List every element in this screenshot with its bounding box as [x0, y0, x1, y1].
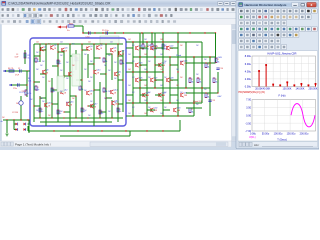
resistor R6 — [120, 60, 122, 64]
svg-text:2k2: 2k2 — [148, 92, 151, 94]
top rail wire — [83, 32, 216, 34]
wire vertical bus x64 — [63, 50, 65, 78]
svg-text:4k: 4k — [216, 81, 218, 83]
svg-text:C:\ACL2\DATA\Petrov\Head\MP-K2: C:\ACL2\DATA\Petrov\Head\MP-K201\U02_Hed… — [8, 2, 111, 6]
toolbar3 icon 5 — [26, 20, 29, 23]
svg-text:1k2: 1k2 — [144, 100, 147, 102]
svg-text:2k2: 2k2 — [66, 78, 69, 80]
svg-text:2k2: 2k2 — [72, 98, 75, 100]
toolbar3 icon 6 — [31, 20, 35, 24]
svg-text:Q33: Q33 — [177, 108, 180, 110]
capacitor C9 — [17, 83, 19, 86]
analysis title bar — [237, 2, 318, 8]
junction inner (106,74) — [105, 73, 106, 74]
junction input 1 — [26, 70, 27, 71]
right horizontal rail 5 — [126, 102, 202, 104]
toolbar1 icon 6 — [28, 8, 31, 11]
analysis caption buttons — [292, 2, 299, 7]
analysis tb7 button 7 — [275, 44, 280, 49]
junction inner (76,96) — [75, 95, 76, 96]
svg-text:2k2: 2k2 — [164, 61, 167, 63]
wire vertical out x140 — [139, 33, 141, 103]
toolbar row 1 — [0, 7, 319, 13]
toolbar2 icon 21 — [110, 14, 112, 17]
svg-text:2k2: 2k2 — [2, 117, 5, 119]
svg-text:2k2: 2k2 — [60, 91, 63, 93]
junction extra d4 — [139, 64, 140, 65]
wire jog j1 — [40, 49, 46, 51]
toolbar1 icon 24 — [122, 8, 124, 11]
toolbar2 icon 16 — [83, 14, 86, 17]
wire segment s17 — [155, 94, 163, 96]
junction out (133,72) — [132, 71, 133, 72]
junction out (147,72) — [146, 71, 147, 72]
svg-text:Q1: Q1 — [44, 47, 46, 49]
analysis tab nav 1 — [239, 142, 242, 146]
analysis tb6 button 2 — [245, 38, 250, 43]
wire jog j16 — [118, 79, 123, 81]
resistor R1B — [151, 33, 153, 44]
toolbar3 icon 1 — [2, 20, 4, 23]
svg-text:1k2: 1k2 — [36, 42, 39, 44]
toolbar3 icon 13 — [73, 20, 76, 23]
junction bottom rail x126 — [125, 130, 126, 131]
svg-text:2N: 2N — [65, 50, 67, 52]
wire vertical bus x118 — [117, 44, 119, 122]
analysis tb2 button 2 — [245, 14, 250, 19]
transistor Q5 — [97, 45, 100, 49]
wire vertical bus x76 — [75, 50, 77, 70]
svg-text:2k2: 2k2 — [36, 110, 39, 112]
analysis close button — [307, 2, 316, 7]
analysis tb1 button 12 — [306, 8, 311, 13]
transistor Q16 — [67, 102, 70, 106]
transistor Q29 — [143, 93, 146, 97]
wire vertical bus x112 — [111, 54, 113, 80]
svg-text:1k2: 1k2 — [144, 113, 147, 115]
resistor R30 — [205, 63, 207, 68]
toolbar1 icon 7 — [33, 8, 35, 11]
toolbar1 icon 26 — [132, 8, 135, 11]
transistor Q32 — [151, 108, 154, 112]
analysis tb4 button 12 — [306, 26, 311, 31]
wire jog j12 — [64, 75, 70, 77]
toolbar1 icon 23 — [117, 8, 120, 11]
svg-text:2N: 2N — [100, 48, 102, 50]
region highlight mid column — [72, 54, 80, 86]
resistor R6 — [9, 70, 14, 72]
svg-text:2k2: 2k2 — [104, 98, 107, 100]
svg-text:2k2: 2k2 — [204, 59, 207, 61]
svg-text:2k2: 2k2 — [180, 45, 183, 47]
analysis tb5 button 8 — [281, 32, 286, 37]
toolbar1 icon 5 — [22, 8, 25, 11]
junction inner (58,52) — [57, 51, 58, 52]
analysis tb1 button 11 — [300, 8, 305, 13]
junction out (194,103) — [193, 102, 194, 103]
wire segment s9 — [170, 47, 178, 49]
svg-text:1k2: 1k2 — [160, 113, 163, 115]
toolbar1 icon 15 — [75, 8, 78, 11]
analysis tb4 button 3 — [251, 26, 256, 31]
svg-text:2k2: 2k2 — [180, 77, 183, 79]
svg-text:Q26: Q26 — [139, 78, 142, 80]
analysis tb3 button 2 — [245, 20, 250, 25]
caption buttons main window — [218, 2, 224, 6]
svg-text:2k2: 2k2 — [66, 62, 69, 64]
main title bar — [0, 0, 319, 7]
svg-text:1k2: 1k2 — [128, 39, 131, 41]
region highlight small — [57, 76, 64, 92]
toolbar3 icon 10 — [56, 20, 58, 23]
wire segment s27 — [217, 88, 219, 93]
toolbar2 icon 9 — [45, 14, 48, 17]
svg-text:2k2: 2k2 — [204, 89, 207, 91]
harmonic stem 9 — [315, 84, 317, 87]
svg-text:1k2: 1k2 — [176, 69, 179, 71]
analysis tb1 button 5 — [263, 8, 268, 13]
junction out (170,103) — [169, 102, 170, 103]
toolbar3 icon 4 — [19, 20, 22, 23]
analysis tb2 button 9 — [287, 14, 292, 19]
capacitor C2in — [19, 69, 21, 72]
analysis tb7 button 6 — [269, 44, 274, 49]
svg-text:2k2: 2k2 — [36, 52, 39, 54]
analysis tb1 button 3 — [251, 8, 256, 13]
svg-text:2k2: 2k2 — [132, 92, 135, 94]
resistor R12 — [57, 110, 59, 114]
wire vertical bus x52 — [51, 78, 53, 118]
svg-text:V(RL): V(RL) — [249, 136, 256, 139]
analysis tb7 button 3 — [251, 44, 256, 49]
junction node top rail A — [82, 32, 83, 33]
svg-text:150.00u: 150.00u — [287, 132, 296, 135]
svg-text:4k: 4k — [208, 96, 210, 98]
resistor R9 — [79, 86, 81, 90]
analysis tb1 button 2 — [245, 8, 250, 13]
resistor R33 — [205, 93, 207, 98]
analysis tb7 button 1 — [239, 44, 244, 49]
toolbar1 icon 40 — [206, 8, 209, 11]
analysis tb1 button 13 — [312, 8, 317, 13]
schematic tab bar — [0, 141, 232, 147]
svg-text:Q22: Q22 — [170, 46, 173, 48]
svg-text:2k2: 2k2 — [180, 61, 183, 63]
svg-text:2k2: 2k2 — [108, 70, 111, 72]
wire vertical out x178 — [177, 33, 179, 116]
analysis tb4 button 11 — [300, 26, 305, 31]
svg-text:2k2: 2k2 — [40, 98, 43, 100]
svg-text:2N: 2N — [90, 93, 92, 95]
diode D1 — [16, 123, 18, 126]
junction extra d11 — [162, 94, 163, 95]
svg-text:x: x — [311, 3, 313, 7]
wire jog j8 — [118, 55, 123, 57]
harmonic stem 3 — [272, 85, 274, 87]
toolbar3 icon 27 — [156, 20, 159, 23]
svg-text:1k: 1k — [101, 113, 103, 115]
junction out (178,116) — [177, 115, 178, 116]
wire vertical bus x70 — [69, 44, 71, 122]
wire vertical out x163 — [162, 42, 164, 116]
svg-text:Q27: Q27 — [154, 78, 157, 80]
svg-text:0.7k: 0.7k — [28, 93, 32, 95]
junction out (140,57) — [139, 56, 140, 57]
toolbar1 icon 42 — [216, 8, 219, 11]
junction inner (58,66) — [57, 65, 58, 66]
toolbar3 icon 14 — [79, 20, 82, 23]
analysis tb4 button 13 — [312, 26, 317, 31]
toolbar2 icon 31 — [165, 14, 167, 17]
junction inner (94,64) — [93, 63, 94, 64]
junction inner (40,50) — [39, 49, 40, 50]
junction input 2 — [26, 84, 27, 85]
svg-text:2N3: 2N3 — [177, 110, 180, 112]
junction inner (118,104) — [117, 103, 118, 104]
junction inner (123,80) — [122, 79, 123, 80]
svg-text:2k2: 2k2 — [60, 111, 63, 113]
svg-text:7.00: 7.00 — [246, 99, 251, 102]
analysis tb2 button 5 — [263, 14, 268, 19]
wire vertical bus x40 — [39, 44, 41, 62]
schematic canvas background — [0, 25, 232, 142]
junction inner (94,90) — [93, 89, 94, 90]
toolbar2 icon 14 — [72, 14, 75, 17]
svg-text:+56V: +56V — [217, 57, 223, 59]
toolbar3 icon 25 — [144, 20, 147, 23]
junction bottom rail x54 — [53, 130, 54, 131]
toolbar1 icon 38 — [195, 8, 198, 11]
app icon — [2, 1, 7, 6]
svg-text:2N3: 2N3 — [146, 95, 149, 97]
input stub 2 arrow — [9, 84, 12, 86]
svg-text:2N3: 2N3 — [154, 48, 157, 50]
svg-text:2k2: 2k2 — [36, 90, 39, 92]
analysis tb5 button 7 — [275, 32, 280, 37]
analysis tb7 button 2 — [245, 44, 250, 49]
toolbar1 icon 10 — [48, 8, 51, 11]
svg-text:0.00: 0.00 — [246, 114, 251, 117]
analysis tb2 button 3 — [251, 14, 256, 19]
wire segment s3 — [93, 122, 95, 126]
analysis tb7 button 4 — [257, 44, 262, 49]
harmonic stem 8 — [307, 85, 309, 86]
resistor R3 — [57, 60, 59, 64]
analysis tb2 button 7 — [275, 14, 280, 19]
resistor-cap pair R2/C3 — [24, 50, 26, 64]
bottom plot grid — [264, 100, 266, 132]
svg-text:1k2: 1k2 — [160, 54, 163, 56]
svg-text:1k2: 1k2 — [176, 100, 179, 102]
wire jog j22 — [34, 105, 40, 107]
svg-text:2k2: 2k2 — [42, 101, 45, 103]
junction extra d1 — [139, 47, 140, 48]
svg-text:4k: 4k — [208, 66, 210, 68]
svg-text:2k2: 2k2 — [108, 55, 111, 57]
transistor Q12 — [61, 90, 64, 94]
junction extra d9 — [169, 79, 170, 80]
svg-text:1k2: 1k2 — [144, 39, 147, 41]
svg-text:2k2: 2k2 — [164, 45, 167, 47]
wire segment s10 — [140, 64, 147, 66]
selection box (blue rounded rect) — [30, 38, 126, 126]
svg-text:2k2: 2k2 — [84, 69, 87, 71]
svg-text:HD(HARM(V(RL),F)) (%): HD(HARM(V(RL),F)) (%) — [239, 91, 266, 94]
svg-text:2k2: 2k2 — [60, 70, 63, 72]
svg-text:2k2: 2k2 — [84, 90, 87, 92]
svg-text:2k2: 2k2 — [196, 74, 199, 76]
inductor Lng — [162, 33, 164, 44]
svg-text:2k2: 2k2 — [104, 65, 107, 67]
svg-text:270u: 270u — [13, 88, 17, 90]
analysis tb5 button 1 — [239, 32, 244, 37]
junction inner (46,74) — [45, 73, 46, 74]
toolbar1 icon 17 — [85, 8, 87, 11]
svg-text:27uF: 27uF — [15, 75, 19, 77]
toolbar3 icon 11 — [61, 20, 64, 23]
toolbar2 icon 12 — [62, 14, 64, 17]
transistor Q17 — [91, 104, 94, 108]
wire segment s16 — [140, 94, 147, 96]
svg-text:Q14: Q14 — [114, 90, 117, 92]
svg-text:1k2: 1k2 — [128, 69, 131, 71]
analysis tb7 button 5 — [263, 44, 268, 49]
wire segment s6 — [126, 94, 133, 96]
toolbar1 icon 45 — [232, 8, 235, 11]
transistor Q7 — [119, 51, 122, 55]
toolbar2 icon 6 — [29, 14, 34, 18]
wire vertical bus x88 — [87, 54, 89, 78]
toolbar2 icon 3 — [12, 14, 14, 17]
toolbar3 icon 9 — [49, 20, 52, 23]
toolbar2 icon 25 — [132, 14, 135, 17]
junction extra d16 — [209, 62, 210, 63]
wire segment s25 — [217, 72, 219, 88]
junction extra d2 — [154, 47, 155, 48]
lower-left rail — [3, 119, 30, 121]
svg-text:1k2: 1k2 — [128, 54, 131, 56]
analysis tb5 button 9 — [287, 32, 292, 37]
analysis tb5 button 2 — [245, 32, 250, 37]
svg-text:1k2: 1k2 — [176, 85, 179, 87]
toolbar1 icon 3 — [12, 8, 15, 11]
toolbar1 icon 12 — [58, 8, 61, 11]
sine wave V(RL) — [291, 104, 315, 127]
toolbar2 icon 13 — [67, 14, 69, 17]
toolbar1 icon 39 — [200, 8, 203, 11]
junction out (194,57) — [193, 56, 194, 57]
svg-text:C13: C13 — [212, 100, 215, 102]
toolbar2 icon 20 — [105, 14, 108, 17]
svg-text:Q10: Q10 — [97, 70, 100, 72]
svg-text:1k2: 1k2 — [128, 100, 131, 102]
wire jog j5 — [34, 55, 40, 57]
toolbar2 icon 30 — [160, 14, 163, 17]
transistor Q20 — [136, 46, 139, 50]
resistor R8 — [51, 88, 53, 92]
wire segment s5 — [126, 62, 133, 64]
analysis tb4 button 2 — [245, 26, 250, 31]
svg-text:2k2: 2k2 — [66, 102, 69, 104]
resistor R14 — [99, 110, 101, 114]
analysis tb4 button 6 — [269, 26, 274, 31]
junction bottom rail x102 — [101, 130, 102, 131]
tab nav button 4 — [11, 142, 14, 146]
svg-text:2k2: 2k2 — [48, 44, 51, 46]
svg-text:2N3: 2N3 — [154, 80, 157, 82]
toolbar3 icon 17 — [97, 20, 99, 23]
junction out (202,88) — [201, 87, 202, 88]
right horizontal rail 4 — [133, 87, 210, 89]
wire jog j11 — [40, 73, 46, 75]
analysis tb5 button 3 — [251, 32, 256, 37]
transistor Q2 — [51, 45, 54, 49]
junction extra d6 — [169, 64, 170, 65]
svg-text:2N: 2N — [94, 106, 96, 108]
wire jog j10 — [88, 63, 94, 65]
analysis tb7 button 8 — [281, 44, 286, 49]
transistor Q3 — [62, 48, 65, 52]
bottom plot frame — [252, 100, 316, 132]
svg-text:2k2: 2k2 — [164, 77, 167, 79]
analysis tb2 button 11 — [300, 14, 305, 19]
svg-text:2N3: 2N3 — [184, 95, 187, 97]
svg-text:2k2: 2k2 — [108, 111, 111, 113]
transistor Q21 — [151, 46, 154, 50]
toolbar3 icon 29 — [167, 20, 170, 23]
toolbar2 icon 24 — [127, 14, 130, 17]
wire vertical bus x123 — [122, 50, 124, 112]
analysis tb2 button 4 — [257, 14, 262, 19]
svg-text:Q20: Q20 — [139, 46, 142, 48]
analysis tb1 button 10 — [294, 8, 299, 13]
toolbar1 icon 13 — [65, 8, 68, 11]
resistor R50 — [68, 25, 74, 27]
svg-text:2k2: 2k2 — [42, 77, 45, 79]
junction inner (82,50) — [81, 49, 82, 50]
svg-text:4n: 4n — [1, 121, 3, 123]
resistor R13 — [81, 108, 83, 112]
analysis tb3 button 8 — [281, 20, 286, 25]
svg-text:2k2: 2k2 — [164, 107, 167, 109]
analysis tb1 button 6 — [269, 8, 274, 13]
svg-text:275u: 275u — [22, 91, 26, 93]
wire jog j21 — [106, 97, 112, 99]
toolbar1 icon 11 — [53, 8, 55, 11]
svg-text:2k2: 2k2 — [114, 62, 117, 64]
svg-text:2k2: 2k2 — [100, 44, 103, 46]
svg-text:2k2: 2k2 — [72, 65, 75, 67]
wire segment s7 — [140, 47, 147, 49]
toolbar3 icon 18 — [103, 20, 106, 23]
svg-text:Harmonic Distortion Analysis: Harmonic Distortion Analysis — [245, 3, 287, 7]
svg-text:Q23: Q23 — [139, 63, 142, 65]
toolbar1 icon 27 — [138, 8, 140, 11]
toolbar3 icon 7 — [37, 20, 41, 24]
region highlight green box top — [100, 36, 119, 44]
wire segment s20 — [163, 109, 170, 111]
svg-text:-3.50: -3.50 — [245, 122, 251, 125]
toolbar1 icon 2 — [7, 8, 10, 11]
toolbar row 2 — [0, 13, 319, 19]
wire vertical out x155 — [154, 33, 156, 88]
inner bottom rail 2 — [40, 121, 112, 123]
junction extra d3 — [169, 47, 170, 48]
analysis tb6 button 4 — [257, 38, 262, 43]
svg-text:1k: 1k — [59, 113, 61, 115]
svg-text:2N: 2N — [114, 50, 116, 52]
svg-text:2k2: 2k2 — [90, 61, 93, 63]
